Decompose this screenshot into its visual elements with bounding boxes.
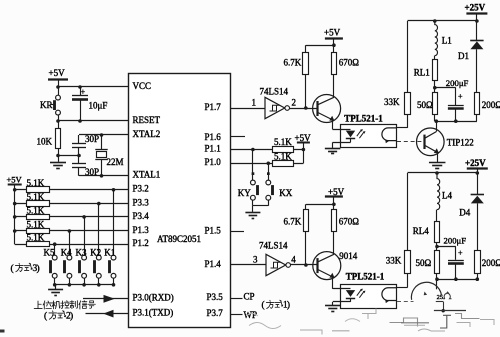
svg-text:TPL521-1: TPL521-1 [346, 272, 385, 282]
svg-text:33K: 33K [386, 256, 402, 266]
svg-text:D1: D1 [458, 51, 469, 61]
svg-text:200Ω: 200Ω [482, 258, 500, 268]
svg-text:P1.1: P1.1 [205, 143, 221, 153]
svg-text:33K: 33K [384, 97, 400, 107]
svg-text:P3.1(TXD): P3.1(TXD) [133, 308, 174, 318]
svg-text:(: ( [262, 300, 265, 311]
svg-text:10K: 10K [37, 137, 53, 147]
svg-text:9014: 9014 [339, 251, 358, 261]
svg-text:5.1K: 5.1K [274, 137, 292, 147]
svg-text:P3.5: P3.5 [207, 292, 224, 302]
svg-text:K4: K4 [61, 247, 72, 257]
svg-text:2: 2 [292, 98, 297, 108]
svg-text:P3.0(RXD): P3.0(RXD) [133, 293, 174, 303]
svg-text:K1: K1 [104, 247, 115, 257]
svg-text:RESET: RESET [133, 115, 161, 125]
svg-text:+5V: +5V [7, 174, 23, 184]
svg-text:50Ω: 50Ω [417, 100, 433, 110]
svg-text:+25V: +25V [465, 3, 486, 13]
svg-text:10μF: 10μF [89, 100, 108, 110]
svg-text:4: 4 [291, 254, 296, 264]
svg-text:74LS14: 74LS14 [259, 240, 288, 250]
svg-text:5.1K: 5.1K [27, 205, 45, 215]
svg-text:3: 3 [253, 254, 258, 264]
svg-text:+5V: +5V [324, 27, 341, 37]
svg-text:P3.3: P3.3 [133, 198, 150, 208]
svg-text:CP: CP [244, 292, 255, 302]
svg-text:KR: KR [40, 100, 53, 110]
svg-text:(: ( [44, 310, 47, 321]
svg-text:XTAL2: XTAL2 [133, 129, 161, 139]
svg-text:+: + [458, 92, 463, 101]
svg-text:200μF: 200μF [446, 78, 469, 88]
svg-text:RL4: RL4 [413, 226, 430, 236]
svg-text:P1.0: P1.0 [205, 157, 222, 167]
svg-text:P1.4: P1.4 [205, 259, 222, 269]
svg-text:L1: L1 [442, 36, 452, 46]
svg-text:): ) [36, 263, 39, 274]
svg-text:5.1K: 5.1K [27, 192, 45, 202]
svg-text:1: 1 [252, 98, 257, 108]
svg-text:AT89C2051: AT89C2051 [157, 234, 201, 244]
svg-text:D4: D4 [459, 207, 470, 217]
svg-text:30P: 30P [85, 134, 99, 144]
svg-text:TIP122: TIP122 [447, 137, 474, 147]
svg-text:200Ω: 200Ω [482, 100, 500, 110]
svg-text:6.7K: 6.7K [284, 216, 302, 226]
svg-text:22M: 22M [107, 157, 124, 167]
svg-text:5.1K: 5.1K [27, 178, 45, 188]
svg-text:KX: KX [279, 188, 292, 198]
svg-text:+5V: +5V [49, 68, 66, 78]
svg-text:200μF: 200μF [444, 236, 467, 246]
svg-text:P3.4: P3.4 [133, 211, 150, 221]
svg-text:K5: K5 [44, 247, 55, 257]
svg-text:VCC: VCC [133, 81, 152, 91]
svg-text:5.1K: 5.1K [274, 151, 292, 161]
svg-text:P1.6: P1.6 [205, 132, 222, 142]
svg-text:TPL521-1: TPL521-1 [344, 113, 383, 123]
svg-text:K2: K2 [90, 247, 101, 257]
svg-text:30P: 30P [85, 167, 99, 177]
svg-text:L4: L4 [442, 190, 452, 200]
svg-text:+25V: +25V [465, 158, 486, 168]
svg-text:5.1K: 5.1K [27, 233, 45, 243]
svg-text:670Ω: 670Ω [339, 216, 360, 226]
svg-text:(: ( [11, 263, 14, 274]
svg-text:P1.7: P1.7 [205, 102, 222, 112]
svg-text:74LS14: 74LS14 [260, 87, 289, 97]
svg-text:): ) [70, 310, 73, 321]
svg-text:P1.5: P1.5 [205, 225, 222, 235]
svg-text:P3.2: P3.2 [133, 184, 149, 194]
svg-text:6.7K: 6.7K [284, 57, 302, 67]
svg-text:25: 25 [437, 294, 444, 301]
svg-text:KY: KY [238, 188, 251, 198]
svg-text:670Ω: 670Ω [339, 57, 360, 67]
svg-text:+: + [458, 249, 463, 258]
svg-text:RL1: RL1 [414, 68, 430, 78]
svg-text:XTAL1: XTAL1 [133, 170, 161, 180]
svg-text:5.1K: 5.1K [27, 219, 45, 229]
svg-text:50Ω: 50Ω [416, 258, 432, 268]
svg-text:P1.2: P1.2 [133, 238, 149, 248]
svg-text:P3.7: P3.7 [207, 308, 224, 318]
svg-text:P1.3: P1.3 [133, 225, 150, 235]
svg-text:WP: WP [244, 310, 258, 320]
svg-text:): ) [287, 300, 290, 311]
svg-text:K3: K3 [76, 247, 87, 257]
